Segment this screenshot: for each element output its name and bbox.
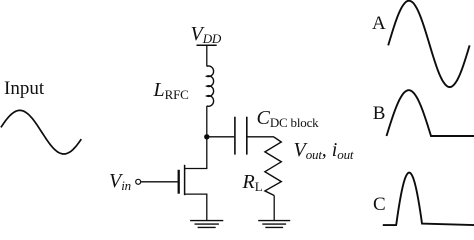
wire terminal to gate: [141, 181, 178, 183]
label L_RFC: [154, 80, 189, 101]
label R_L: [243, 172, 263, 193]
ground under transistor: [190, 221, 223, 228]
wire node to capacitor: [207, 136, 234, 138]
transistor drain wire: [185, 137, 207, 169]
wire inductor to node: [206, 106, 208, 137]
transistor source wire: [185, 194, 207, 220]
label VDD: [191, 24, 222, 45]
label C: [373, 195, 386, 214]
transistor M1 gate bar: [178, 170, 180, 194]
node junction dot: [204, 134, 209, 139]
label Input: [4, 79, 44, 98]
output waveform C: [383, 173, 474, 226]
capacitor C_DC block left plate: [234, 117, 236, 155]
input terminal circle: [136, 179, 141, 184]
resistor R_L zigzag: [265, 137, 281, 196]
transistor M1 channel bar: [184, 165, 186, 195]
output waveform A: [388, 1, 469, 87]
wire VDD stem: [206, 45, 208, 66]
ground under resistor: [258, 221, 290, 228]
label C_DC block: [257, 108, 319, 129]
label Vin: [109, 171, 131, 192]
label Vout iout: [294, 140, 354, 161]
wire capacitor to resistor: [247, 136, 274, 138]
input sine waveform: [1, 110, 81, 154]
capacitor C_DC block right plate: [246, 117, 248, 155]
power rail VDD bar: [197, 44, 217, 46]
inductor L_RFC: [207, 66, 214, 106]
label A: [372, 14, 386, 33]
label B: [373, 104, 386, 123]
wire resistor to ground: [273, 196, 275, 221]
output waveform B: [387, 90, 474, 136]
